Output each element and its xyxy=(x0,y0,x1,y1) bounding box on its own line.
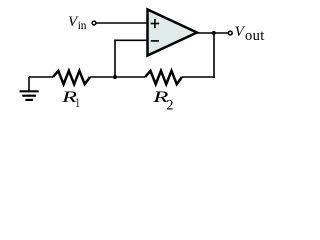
junction dot feedback node xyxy=(113,75,117,79)
wire - input (node to op-amp) xyxy=(114,39,147,41)
output wire xyxy=(195,32,228,34)
wire ground to R1 xyxy=(29,76,53,78)
label Vin xyxy=(68,14,87,32)
wire output down xyxy=(213,33,215,78)
output terminal (open circle) xyxy=(228,31,232,35)
input terminal (open circle) xyxy=(92,21,96,25)
op-amp plus sign xyxy=(151,19,160,28)
wire Vin to op-amp + input xyxy=(96,22,147,24)
label Vout xyxy=(235,24,265,44)
op-amp U1 xyxy=(148,10,198,56)
wire R2 right to output drop xyxy=(182,76,215,78)
svg-text:2: 2 xyxy=(166,97,173,113)
op-amp minus sign xyxy=(151,40,159,42)
svg-text:out: out xyxy=(245,28,265,44)
svg-text:1: 1 xyxy=(75,95,80,110)
resistor R2 xyxy=(145,71,182,84)
ground xyxy=(20,77,39,100)
resistor R1 xyxy=(53,71,90,84)
junction dot output node xyxy=(212,31,216,35)
label R1 xyxy=(60,89,80,110)
label R2 xyxy=(152,89,174,113)
wire R1 to node xyxy=(90,76,115,78)
wire feedback vertical xyxy=(114,40,116,78)
svg-text:in: in xyxy=(78,20,87,32)
wire node to R2 xyxy=(115,76,145,78)
